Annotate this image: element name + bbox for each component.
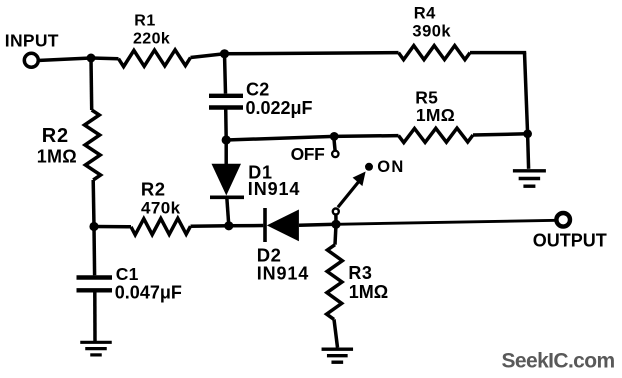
svg-text:R1: R1 bbox=[134, 13, 155, 30]
svg-text:390k: 390k bbox=[412, 22, 451, 40]
svg-text:1MΩ: 1MΩ bbox=[37, 147, 77, 167]
svg-text:R2: R2 bbox=[141, 179, 166, 200]
svg-text:C2: C2 bbox=[246, 79, 269, 99]
svg-text:R3: R3 bbox=[348, 263, 372, 283]
svg-text:0.047μF: 0.047μF bbox=[115, 283, 182, 303]
svg-text:R4: R4 bbox=[414, 5, 436, 23]
svg-text:IN914: IN914 bbox=[248, 179, 301, 199]
svg-text:1MΩ: 1MΩ bbox=[349, 282, 388, 302]
svg-text:SeekIC.com: SeekIC.com bbox=[502, 350, 615, 373]
svg-text:IN914: IN914 bbox=[257, 263, 310, 283]
svg-text:C1: C1 bbox=[116, 264, 139, 284]
svg-text:OUTPUT: OUTPUT bbox=[533, 231, 607, 251]
svg-text:0.022μF: 0.022μF bbox=[246, 98, 313, 118]
svg-text:OFF: OFF bbox=[291, 144, 326, 164]
svg-text:220k: 220k bbox=[133, 31, 170, 48]
svg-text:INPUT: INPUT bbox=[5, 30, 59, 50]
svg-text:470k: 470k bbox=[141, 199, 181, 218]
svg-text:1MΩ: 1MΩ bbox=[416, 105, 455, 125]
svg-text:R2: R2 bbox=[42, 125, 69, 147]
svg-text:ON: ON bbox=[377, 158, 404, 176]
